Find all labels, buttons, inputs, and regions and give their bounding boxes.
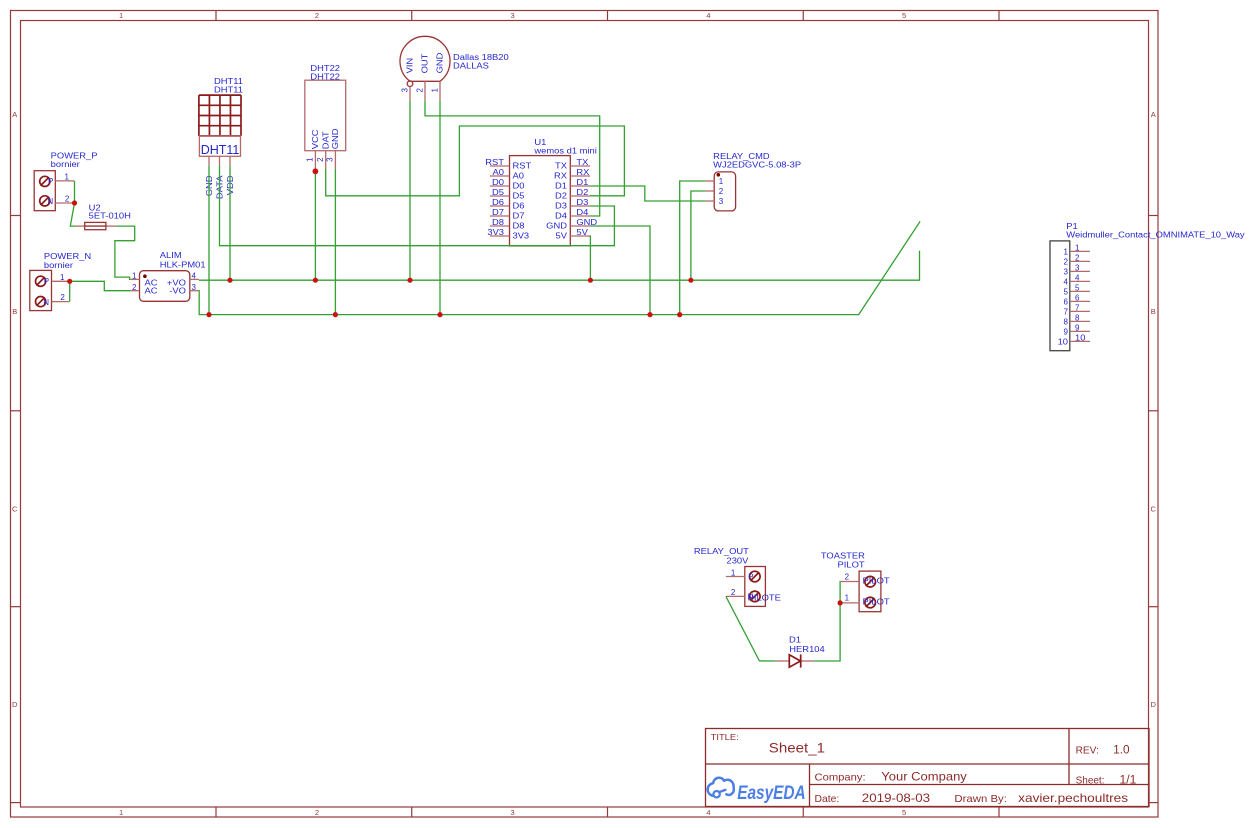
wire diode D1 to TOASTER: [814, 582, 841, 662]
wire RELAY_CMD pin1 to -VO: [680, 181, 706, 315]
svg-text:7: 7: [1075, 303, 1080, 312]
svg-text:3: 3: [511, 808, 515, 817]
svg-text:GND: GND: [546, 222, 567, 231]
svg-text:Dallas 18B20: Dallas 18B20: [453, 53, 509, 62]
svg-text:2: 2: [60, 293, 65, 302]
U1 pin A0 (left): [490, 175, 510, 177]
svg-text:2: 2: [315, 808, 319, 817]
svg-text:3: 3: [511, 11, 515, 20]
svg-text:D0: D0: [492, 178, 505, 187]
wire DHT22 DAT to U1 D2: [326, 126, 625, 196]
wire fuse U2 right to ALIM pin1: [115, 226, 135, 279]
wire DHT11 DATA to U1 D3: [220, 166, 615, 246]
wire POWER_N pin1 to pin2: [69, 281, 71, 301]
svg-text:2: 2: [132, 283, 137, 292]
svg-text:C: C: [12, 505, 18, 514]
TOASTER pin 1: [841, 602, 859, 604]
svg-text:A0: A0: [513, 172, 525, 181]
svg-text:8: 8: [1064, 317, 1069, 326]
svg-text:5V: 5V: [556, 232, 568, 241]
svg-text:D5: D5: [513, 192, 526, 201]
svg-text:8: 8: [1075, 313, 1080, 322]
AC/DC module ALIM HLK-PM01: [130, 251, 206, 301]
ALIM pin 4 +VO: [190, 278, 199, 280]
RELAY_OUT pin 2: [726, 595, 745, 597]
U1 pin D6 (left): [490, 205, 510, 207]
wire POWER_P pin1 to pin2 junction: [74, 181, 76, 203]
sensor DHT22: [305, 64, 346, 169]
P1 pin 4: [1070, 280, 1090, 282]
svg-text:D7: D7: [513, 212, 526, 221]
svg-text:1: 1: [845, 594, 850, 603]
svg-text:Date:: Date:: [815, 793, 840, 805]
svg-text:2: 2: [845, 573, 850, 582]
svg-text:PILOTE: PILOTE: [748, 593, 781, 602]
P1 pin 1: [1070, 250, 1090, 252]
U2 pin leads: [76, 225, 85, 227]
svg-text:ALIM: ALIM: [160, 251, 182, 260]
svg-text:1: 1: [430, 88, 439, 93]
svg-text:2: 2: [1075, 253, 1080, 262]
svg-text:D7: D7: [492, 208, 505, 217]
svg-text:RX: RX: [576, 168, 590, 177]
POWER_P pin 2: [55, 202, 74, 204]
U1 pin D1 (right): [570, 185, 590, 187]
svg-text:5V: 5V: [576, 228, 588, 237]
svg-text:D6: D6: [513, 202, 526, 211]
U1 pin D8 (left): [490, 225, 510, 227]
svg-text:1: 1: [731, 568, 736, 577]
svg-text:2: 2: [731, 588, 736, 597]
svg-text:DHT11: DHT11: [201, 143, 240, 157]
svg-text:P: P: [748, 572, 753, 581]
svg-text:D0: D0: [513, 182, 526, 191]
svg-text:3: 3: [719, 197, 724, 206]
POWER_P pin 1: [55, 180, 74, 182]
svg-text:1/1: 1/1: [1120, 774, 1137, 786]
svg-text:3: 3: [1064, 267, 1069, 276]
U1 pin 3V3 (left): [490, 235, 510, 237]
ALIM pin 3 -VO: [190, 290, 199, 292]
svg-text:D2: D2: [555, 192, 568, 201]
wire RELAY_CMD pin2 to +VO: [691, 191, 705, 280]
RELAY_CMD body: [714, 172, 735, 211]
svg-text:GND: GND: [435, 52, 444, 73]
svg-text:5: 5: [1075, 283, 1080, 292]
DALLAS TO-92 body: [400, 36, 450, 81]
svg-text:DALLAS: DALLAS: [453, 62, 489, 71]
U1 pin D7 (left): [490, 215, 510, 217]
U1 body: [510, 156, 571, 246]
svg-text:RX: RX: [554, 172, 568, 181]
svg-text:6: 6: [1064, 297, 1069, 306]
svg-text:-VO: -VO: [169, 287, 186, 296]
POWER_N pin 2: [52, 301, 70, 303]
wire POWER_N to ALIM pin2: [70, 281, 131, 290]
diode D1 HER104: [776, 636, 826, 668]
wire TOASTER pin1 stub: [840, 602, 841, 604]
svg-text:1: 1: [60, 273, 65, 282]
svg-text:1.0: 1.0: [1113, 745, 1130, 757]
svg-text:3: 3: [400, 88, 409, 93]
P1 pin 9: [1070, 330, 1090, 332]
svg-text:1: 1: [1075, 243, 1080, 252]
svg-text:D3: D3: [576, 198, 589, 207]
svg-text:HER104: HER104: [789, 645, 825, 654]
U1 pin TX (right): [570, 165, 590, 167]
svg-text:WJ2EDGVC-5.08-3P: WJ2EDGVC-5.08-3P: [713, 161, 801, 170]
wire +VO rail: [199, 251, 920, 280]
svg-text:D6: D6: [492, 198, 505, 207]
U1 pin D3 (right): [570, 205, 590, 207]
svg-text:RELAY_CMD: RELAY_CMD: [713, 152, 770, 161]
svg-text:4: 4: [1064, 277, 1069, 286]
svg-text:1: 1: [719, 177, 724, 186]
svg-text:OUT: OUT: [420, 53, 429, 73]
svg-text:N: N: [47, 197, 53, 206]
svg-text:bornier: bornier: [44, 261, 73, 270]
U1 pin D0 (left): [490, 185, 510, 187]
svg-text:2019-08-03: 2019-08-03: [862, 793, 930, 805]
wire DHT22 GND to -VO: [334, 169, 336, 315]
svg-text:RST: RST: [485, 158, 504, 167]
svg-text:5ET-010H: 5ET-010H: [89, 211, 131, 220]
RELAY_CMD pins 1,2,3: [705, 180, 714, 182]
svg-text:1: 1: [1064, 247, 1069, 256]
svg-text:PILOT: PILOT: [863, 598, 890, 607]
svg-text:1: 1: [119, 11, 123, 20]
svg-text:4: 4: [1075, 273, 1080, 282]
svg-text:1: 1: [132, 272, 137, 281]
svg-text:D8: D8: [513, 222, 526, 231]
svg-text:1: 1: [119, 808, 123, 817]
svg-text:D1: D1: [789, 636, 802, 645]
svg-text:PILOT: PILOT: [863, 576, 890, 585]
svg-text:6: 6: [1075, 293, 1080, 302]
wire DHT11 GND to -VO: [208, 166, 210, 315]
svg-text:D3: D3: [555, 202, 568, 211]
svg-text:TX: TX: [576, 158, 589, 167]
svg-text:Your Company: Your Company: [881, 769, 967, 783]
svg-text:2: 2: [316, 157, 325, 162]
svg-text:C: C: [1150, 505, 1156, 514]
DALLAS pin 3 VIN with ring marker: [407, 81, 413, 87]
frame column labels: [119, 11, 906, 817]
svg-text:PILOT: PILOT: [838, 560, 865, 569]
svg-text:4: 4: [706, 808, 710, 817]
svg-text:B: B: [12, 307, 17, 316]
junctions on +VO rail: [227, 278, 232, 283]
D1 anode lead: [776, 660, 790, 662]
svg-text:Sheet:: Sheet:: [1076, 774, 1105, 786]
U2 fuse body: [85, 222, 106, 229]
D1 diode symbol: [789, 655, 800, 667]
svg-text:TITLE:: TITLE:: [711, 732, 739, 742]
svg-text:DAT: DAT: [322, 131, 331, 149]
junction at POWER_P pin2: [72, 200, 77, 205]
POWER_P body with screw terminals P,N: [34, 171, 55, 211]
P1 pin 8: [1070, 320, 1090, 322]
svg-text:POWER_P: POWER_P: [51, 151, 98, 160]
DALLAS pin 2 OUT: [424, 81, 426, 100]
svg-text:D8: D8: [492, 218, 505, 227]
P1 pin 3: [1070, 270, 1090, 272]
ALIM pin 1 AC: [130, 278, 139, 280]
svg-text:5: 5: [902, 808, 906, 817]
svg-text:D4: D4: [576, 208, 589, 217]
svg-text:4: 4: [192, 272, 197, 281]
svg-text:HLK-PM01: HLK-PM01: [160, 261, 206, 270]
junction at TOASTER pin1: [838, 600, 843, 605]
svg-text:RST: RST: [513, 162, 532, 171]
svg-text:10: 10: [1058, 337, 1069, 346]
svg-text:230V: 230V: [727, 556, 750, 565]
svg-text:RELAY_OUT: RELAY_OUT: [694, 547, 749, 556]
POWER_N pin 1: [52, 280, 70, 282]
svg-text:1: 1: [306, 157, 315, 162]
U1 pin RX (right): [570, 175, 590, 177]
wire DALLAS VIN to +VO: [409, 101, 411, 281]
svg-text:D: D: [12, 700, 18, 709]
RELAY_OUT pin 1: [726, 576, 745, 578]
svg-text:D4: D4: [555, 212, 568, 221]
svg-text:9: 9: [1064, 327, 1069, 336]
svg-text:EasyEDA: EasyEDA: [737, 783, 806, 804]
connector P1 Weidmuller_Contact_OMNIMATE_10_Way: [1050, 222, 1245, 351]
svg-text:U1: U1: [534, 138, 547, 147]
junctions on -VO rail: [206, 312, 211, 317]
svg-text:3: 3: [1075, 263, 1080, 272]
svg-text:B: B: [1151, 307, 1156, 316]
junction DHT22 pin1: [313, 168, 319, 174]
P1 body: [1050, 241, 1070, 351]
svg-text:N: N: [43, 298, 49, 307]
U1 pin 5V (right): [570, 235, 590, 237]
wire DALLAS GND to -VO: [439, 101, 441, 315]
svg-text:P: P: [44, 277, 49, 286]
connector POWER_N (bornier): [30, 252, 92, 311]
svg-text:2: 2: [315, 11, 319, 20]
connector POWER_P (bornier): [34, 151, 97, 210]
P1 pin 10: [1070, 340, 1090, 342]
DHT11 grid body: [198, 95, 200, 136]
svg-text:1: 1: [65, 173, 70, 182]
P1 pin 6: [1070, 300, 1090, 302]
P1 pin 2: [1070, 260, 1090, 262]
DALLAS pin 1 GND: [439, 81, 441, 100]
svg-text:D1: D1: [555, 182, 568, 191]
wire RELAY_OUT pin2 to diode D1: [726, 596, 776, 661]
title block: [706, 729, 1150, 807]
svg-text:4: 4: [706, 11, 710, 20]
DHT22 body: [305, 80, 346, 151]
wire DHT22 VCC to +VO: [314, 169, 316, 281]
TOASTER pin 2: [841, 581, 859, 583]
svg-text:REV:: REV:: [1076, 745, 1099, 757]
wire U1 D1 to RELAY_CMD pin3: [590, 186, 705, 201]
svg-text:5: 5: [1064, 287, 1069, 296]
svg-text:POWER_N: POWER_N: [44, 252, 92, 261]
fuse U2 5ET-010H: [76, 204, 132, 230]
svg-text:bornier: bornier: [51, 160, 80, 169]
junction at POWER_N pin1: [67, 279, 72, 284]
connector RELAY_OUT 230V: [694, 547, 781, 607]
svg-text:2: 2: [719, 187, 724, 196]
svg-text:D: D: [1150, 700, 1156, 709]
DHT11 pins GND DATA VDD: [208, 156, 210, 165]
svg-text:Company:: Company:: [815, 771, 866, 783]
U1 pin D4 (right): [570, 215, 590, 217]
svg-text:3V3: 3V3: [487, 228, 504, 237]
ALIM pin 2 AC: [130, 290, 139, 292]
wire junction to fuse U2 left: [70, 203, 75, 226]
D1 cathode lead: [801, 660, 814, 662]
EasyEDA logo: [708, 778, 806, 804]
svg-text:A0: A0: [493, 168, 505, 177]
svg-text:D5: D5: [492, 188, 505, 197]
sensor DHT11: [199, 77, 244, 199]
svg-text:3: 3: [326, 157, 335, 162]
POWER_N body with screw terminals P,N: [30, 270, 52, 310]
ALIM pin1 marker dot: [143, 274, 147, 278]
TOASTER body with screw terminals: [859, 571, 881, 612]
svg-text:VIN: VIN: [406, 58, 415, 74]
svg-text:D2: D2: [576, 188, 589, 197]
RELAY_OUT body with screw terminals: [745, 567, 766, 607]
svg-text:3V3: 3V3: [513, 232, 530, 241]
wire U1 5V to +VO: [589, 236, 591, 280]
svg-text:2: 2: [415, 88, 424, 93]
svg-text:P: P: [48, 177, 53, 186]
connector TOASTER PILOT: [821, 551, 890, 611]
svg-text:xavier.pechoultres: xavier.pechoultres: [1018, 791, 1128, 805]
svg-text:D1: D1: [576, 178, 589, 187]
svg-text:10: 10: [1075, 333, 1086, 342]
wire DHT11 VDD to +VO: [229, 166, 231, 281]
mcu U1 wemos d1 mini: [485, 138, 597, 246]
svg-text:2: 2: [65, 194, 70, 203]
P1 pin 5: [1070, 290, 1090, 292]
svg-text:TX: TX: [555, 162, 568, 171]
svg-text:Sheet_1: Sheet_1: [769, 740, 825, 756]
svg-text:A: A: [1151, 110, 1156, 119]
svg-text:2: 2: [1064, 257, 1069, 266]
svg-text:DHT11: DHT11: [214, 86, 244, 95]
wire U1 GND to -VO: [590, 226, 650, 315]
svg-text:9: 9: [1075, 323, 1080, 332]
U1 pin RST (left): [490, 165, 510, 167]
U1 pin D2 (right): [570, 195, 590, 197]
svg-text:wemos d1 mini: wemos d1 mini: [533, 147, 597, 156]
svg-text:AC: AC: [145, 287, 158, 296]
U1 pin D5 (left): [490, 195, 510, 197]
svg-text:Weidmuller_Contact_OMNIMATE_10: Weidmuller_Contact_OMNIMATE_10_Way: [1066, 230, 1244, 239]
wire DALLAS OUT to U1 D4: [425, 101, 600, 216]
wire -VO rail with diagonal end: [199, 221, 920, 314]
connector RELAY_CMD WJ2EDGVC-5.08-3P: [705, 152, 801, 211]
RELAY_CMD pin1 marker dot: [717, 173, 721, 177]
svg-text:5: 5: [902, 11, 906, 20]
sensor DALLAS Dallas 18B20: [400, 36, 509, 100]
svg-text:GND: GND: [331, 128, 340, 149]
svg-text:A: A: [12, 110, 17, 119]
frame row labels: [12, 110, 1157, 709]
DHT11 name box: [199, 136, 240, 156]
ALIM body: [140, 271, 190, 302]
U1 pin GND (right): [570, 225, 590, 227]
svg-text:Drawn By:: Drawn By:: [954, 793, 1007, 805]
svg-text:7: 7: [1064, 307, 1069, 316]
svg-text:VCC: VCC: [311, 129, 320, 149]
svg-text:TOASTER: TOASTER: [821, 551, 865, 560]
svg-text:3: 3: [192, 283, 197, 292]
P1 pin 7: [1070, 310, 1090, 312]
